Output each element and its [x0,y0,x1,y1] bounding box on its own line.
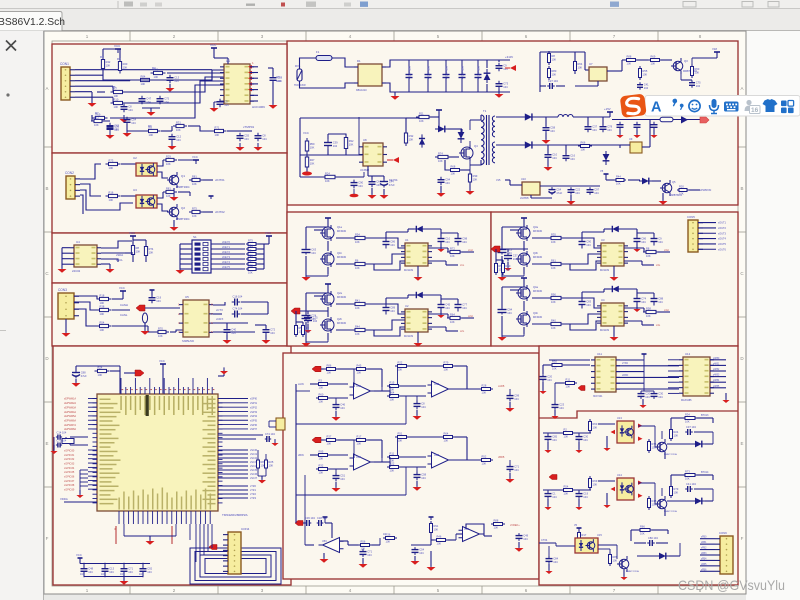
svg-text:F1: F1 [316,50,320,54]
svg-text:CANH: CANH [120,303,128,307]
resistor R3 [151,72,166,74]
ground ic 1 [417,266,419,276]
resistor divider Ra [495,261,497,275]
svg-text:R47: R47 [310,158,315,162]
ground analog [79,490,81,494]
ground opto 14 [606,493,608,504]
diode D2 [484,69,491,83]
svg-text:R90: R90 [551,293,556,297]
diode Do 14 [692,498,706,505]
svg-text:47uF: 47uF [556,191,562,195]
ground c2a B [416,481,418,486]
block frame optocoupler inputs [52,153,287,233]
dip switch S1 [192,240,211,273]
svg-text:x3H: x3H [664,248,669,252]
resistor Re 14 [648,496,650,510]
resistor Rf1 B [324,439,338,441]
svg-text:U2: U2 [405,304,409,308]
wire long feedback left [295,384,297,523]
svg-text:10K: 10K [564,492,569,496]
sogou logo S [620,94,647,118]
wire between fets 4 [523,301,525,311]
wire caps right [241,301,268,303]
svg-text:UBB: UBB [434,454,439,457]
svg-text:10K: 10K [564,435,569,439]
svg-text:C88: C88 [658,296,663,300]
resistor R66 [691,64,693,78]
svg-text:xFB0: xFB0 [701,537,707,539]
svg-text:Q2: Q2 [181,206,185,210]
power flag VCC 3 [523,218,525,221]
svg-text:10K: 10K [506,268,511,272]
wire rtop 13 [671,417,685,419]
resistor R32 pullup [145,244,147,259]
svg-text:R69: R69 [593,479,598,483]
svg-text:xSPI4: xSPI4 [250,414,257,418]
svg-text:R9: R9 [306,326,310,330]
svg-text:10K: 10K [437,542,442,546]
resistor Ro A [479,388,493,390]
svg-text:C92: C92 [147,566,152,570]
svg-text:xEPWM7A: xEPWM7A [64,424,76,427]
svg-text:470uF/450V: 470uF/450V [409,66,412,79]
svg-text:R58: R58 [646,307,651,311]
wire fet branch 4 [502,286,524,288]
svg-text:104: 104 [231,331,236,335]
svg-text:C63: C63 [311,247,316,251]
wire con5 nets [698,222,716,224]
svg-text:10K: 10K [695,71,700,75]
svg-text:R11: R11 [566,378,571,382]
pwm ic U8 UC3842 [363,143,383,166]
svg-text:R38: R38 [100,305,105,309]
svg-text:R64: R64 [578,62,583,66]
mosfet Q2a [322,293,334,305]
svg-text:MMBT3904: MMBT3904 [176,185,190,189]
ground U4 right [109,264,111,268]
svg-text:C74 104: C74 104 [265,432,275,436]
svg-text:C22: C22 [575,187,580,191]
wire to reg [565,51,585,53]
wire boot 3 [581,232,583,238]
resistor R4 [138,79,153,81]
diode D71 [435,126,449,133]
svg-text:1K: 1K [383,533,386,536]
svg-text:470uF/450V: 470uF/450V [428,66,431,79]
wire to ic lower [170,331,176,333]
svg-text:C20: C20 [645,391,650,395]
ground Q1 [173,188,175,196]
opamp D [463,527,480,542]
svg-text:10K: 10K [593,426,598,430]
resistor divider Ra [295,323,297,337]
ic U5 CAN transceiver [183,300,209,337]
svg-text:UAB: UAB [434,383,439,386]
svg-text:xBFB: xBFB [498,455,505,459]
svg-text:TMS320F2808PZA: TMS320F2808PZA [222,513,248,517]
svg-text:C99: C99 [514,393,519,397]
resistor R50 [95,370,110,372]
svg-text:104: 104 [358,184,363,188]
svg-text:C74 104: C74 104 [233,307,243,311]
svg-text:D1: D1 [357,59,361,63]
svg-text:xGPIO34: xGPIO34 [64,467,75,470]
svg-text:xFB3: xFB3 [701,553,707,555]
wire vcc stub [178,191,190,193]
ground cv2 [518,542,520,547]
svg-text:R75: R75 [248,239,253,243]
ground CON3 [65,319,67,332]
transistor Q5 [662,183,672,193]
wire loop jtag 4 [205,559,266,574]
wire sec rail2 [496,144,523,146]
svg-text:VDDA: VDDA [60,497,68,501]
wire dboot 3 [604,228,610,230]
sogou icon tshirt [763,99,778,112]
opamp B B [432,452,449,468]
svg-text:x3L: x3L [656,263,661,267]
svg-text:xKEY5: xKEY5 [222,265,230,269]
svg-text:C55: C55 [244,133,249,137]
svg-text:10K: 10K [319,386,324,390]
svg-text:R80: R80 [552,69,557,73]
wire R22 opto2 [121,195,136,197]
mosfet Q3b [518,253,530,265]
svg-text:104: 104 [559,406,564,410]
mcu pins left all [93,398,98,400]
svg-text:xTXD: xTXD [622,362,628,365]
svg-text:C49: C49 [523,533,528,537]
svg-text:104: 104 [658,395,663,399]
svg-text:VCC: VCC [210,43,217,47]
transistor Q3 [673,61,683,71]
svg-text:BT014: BT014 [701,471,709,474]
optocoupler U15 [575,538,598,553]
svg-text:xGPIO30: xGPIO30 [64,449,75,452]
wire drain rail 1 [327,218,329,227]
ground cap 1 [305,256,307,276]
svg-text:R54: R54 [100,321,105,325]
wire rail2 out [535,144,620,146]
svg-text:R44: R44 [355,325,360,329]
connector CON5 [688,220,698,252]
resistor R74 [416,116,432,118]
svg-text:C83: C83 [586,299,591,303]
svg-text:104: 104 [696,84,701,88]
wire U4 right [101,241,132,248]
svg-text:xVREF+: xVREF+ [510,523,520,527]
svg-text:R66: R66 [581,141,586,145]
tl431 U9 [630,142,642,153]
svg-text:U8: U8 [363,138,367,142]
svg-text:xSCI2: xSCI2 [250,456,258,460]
mosfet Q4 [461,147,473,159]
ground fcaps 13 [547,442,549,449]
svg-text:10K: 10K [451,172,456,176]
port input A [312,366,321,372]
resistor R10 [173,125,187,127]
svg-text:Q1b: Q1b [337,251,342,255]
svg-text:x4850: x4850 [713,358,720,360]
ground R51 R52 [257,468,259,476]
power flag vref row3 [324,517,326,520]
mcu inner pin names bottom [118,498,120,510]
svg-text:F: F [46,536,49,541]
svg-text:MMBT3904: MMBT3904 [176,217,190,221]
power flag VCCA [716,52,718,56]
ground cap 4 [501,316,503,336]
port marks opto 14 [638,481,643,485]
svg-text:R18: R18 [100,294,105,298]
svg-text:C86: C86 [390,239,395,243]
stage2 resistors Rg1 A [395,365,409,367]
ground bridge [394,92,396,95]
ground cvcc 2 [440,310,442,314]
diode Dboot 2 [412,292,426,298]
svg-text:104: 104 [644,86,649,90]
wire port [500,248,528,250]
svg-text:470uF/450V: 470uF/450V [446,66,449,79]
resistor R42 [97,309,112,311]
component Y2 resonator [276,418,285,430]
block frame divider feedback [539,411,738,418]
svg-text:104: 104 [445,306,450,310]
svg-text:C54: C54 [131,117,136,121]
diode Do 13 [692,441,706,448]
svg-text:NE4701: NE4701 [389,179,398,182]
resistor R52 [265,458,267,470]
port xRST [135,370,144,376]
mcu pins right group3 [218,449,248,451]
svg-text:VCC: VCC [119,286,125,290]
ground C72 [383,189,385,194]
svg-text:F: F [741,536,744,541]
resistor Rv3 [491,523,505,525]
wire to R10 [161,130,172,132]
svg-text:R11: R11 [419,112,424,116]
svg-text:R22: R22 [398,361,403,365]
diode Dboot 3 [608,226,622,232]
svg-text:x4H: x4H [664,308,669,312]
snubber diode D72 [458,129,465,143]
opamp C left-facing [323,538,340,553]
svg-text:xEPWM5A: xEPWM5A [64,415,76,418]
svg-text:R29: R29 [166,155,171,159]
svg-text:24C02: 24C02 [72,269,81,273]
ground phase [507,262,509,267]
wire u12 right [710,359,726,361]
svg-text:UAA: UAA [356,385,361,388]
resistor R31 pullup [132,243,134,258]
svg-text:C23: C23 [559,402,564,406]
sogou icon microphone [712,99,717,108]
svg-text:xINT02: xINT02 [215,210,225,214]
svg-text:KBU1010: KBU1010 [356,89,367,92]
mcu analog pins left [80,469,88,471]
wire hout loop 1 [366,238,405,248]
wire source gnd 1 [327,267,329,274]
mcu top pin labels [120,396,122,410]
svg-text:10K: 10K [327,371,332,375]
resistor R78 [578,145,592,147]
wire rn1 common [263,244,265,269]
svg-text:10K: 10K [643,73,648,77]
wire divider [496,259,503,261]
svg-text:x4854: x4854 [713,380,720,382]
port phase out [291,308,300,314]
svg-text:104: 104 [147,570,152,574]
power flag VCC1 [117,49,119,53]
transistor Q2 [169,207,179,217]
svg-text:x1H: x1H [468,248,473,252]
wire gate1 2 [336,303,354,305]
wire cap rail bottom [84,576,143,578]
svg-text:R66: R66 [640,525,645,529]
svg-text:R25: R25 [269,460,274,464]
bottom gutter [44,594,746,600]
svg-text:470uF/450V: 470uF/450V [478,66,481,79]
svg-text:10K: 10K [100,328,105,332]
wire do 14 [705,500,713,502]
ground cvcc 4 [636,304,638,308]
ground C71 [371,188,373,194]
svg-text:IRF640N: IRF640N [337,323,347,325]
resistor Rg1 2 [352,303,368,305]
wire lin label 3 [624,260,642,262]
ground C42 [144,323,146,330]
svg-text:C41: C41 [644,82,649,86]
svg-text:xFB1: xFB1 [701,542,707,544]
ground mcu top right [223,370,225,376]
wire qo emitter 13 [664,452,666,459]
svg-text:xFB2: xFB2 [701,548,707,550]
svg-text:xGPIO37: xGPIO37 [64,480,75,483]
svg-text:C10: C10 [445,236,450,240]
svg-text:U1: U1 [405,238,409,242]
mcu pins left group1 [88,398,97,400]
svg-text:C46: C46 [340,402,345,406]
svg-text:R7: R7 [95,111,99,115]
svg-text:R8: R8 [646,247,650,251]
svg-text:104: 104 [641,300,646,304]
wire dboot 4 [604,288,610,290]
svg-text:R11: R11 [390,452,395,456]
svg-text:MMBT2222A: MMBT2222A [626,570,639,573]
resistor R8 [91,120,105,122]
svg-text:10K: 10K [114,94,119,98]
optocoupler U13 [617,421,634,443]
svg-text:U3: U3 [601,238,605,242]
svg-text:10K: 10K [494,526,499,530]
svg-text:104: 104 [645,395,650,399]
svg-text:R61: R61 [551,259,556,263]
resistor R64 [648,59,662,61]
svg-text:104: 104 [583,438,588,442]
svg-text:R79: R79 [444,361,449,365]
svg-text:xOUT4: xOUT4 [718,238,727,241]
svg-text:U14: U14 [617,473,622,477]
resistor R26 [189,211,203,213]
left panel close button [6,41,16,51]
resistor Rs 2 [447,317,463,319]
svg-text:C94: C94 [507,307,512,311]
wire lower net [92,115,110,121]
resistor Rs 3 [643,251,659,253]
wire drain rail 3 [523,218,525,227]
svg-text:R8: R8 [136,246,140,250]
wire U4 left pins to gnd [62,247,70,249]
svg-text:BS86V1.2.Sch: BS86V1.2.Sch [0,17,65,28]
ground C2 C3 [142,107,160,109]
svg-text:10K: 10K [176,128,181,132]
ground cb2 [642,399,644,404]
svg-text:10K: 10K [357,371,362,375]
resistor R41 [97,298,112,300]
resistor Rs 1 [447,251,463,253]
tab bar [0,9,800,31]
sheet frame inner line [52,41,738,586]
bulk capacitor CB3 [445,60,447,75]
svg-text:U11: U11 [597,352,602,356]
ground C85 pad [350,194,359,198]
svg-text:C75: C75 [313,315,318,319]
power flag VCC 2 [327,284,329,287]
svg-text:R56: R56 [361,540,366,544]
ic U1 HCF4069 [224,64,250,104]
svg-text:xSPI1: xSPI1 [250,401,257,405]
svg-text:R6: R6 [248,259,252,263]
wire opto1 out [157,160,163,166]
svg-text:xTZ0: xTZ0 [250,484,256,488]
svg-text:U4: U4 [601,298,605,302]
wire con6 nets [700,538,715,540]
ground C84 [653,130,655,134]
stage2 resistors Rg1 B [395,436,409,438]
svg-text:C54: C54 [556,187,561,191]
sogou icon apps grid [781,101,787,107]
svg-text:C30: C30 [658,391,663,395]
svg-text:xOUT5: xOUT5 [718,243,727,246]
wire fb top A [321,368,324,370]
svg-text:R16: R16 [109,191,114,195]
wire loop jtag outer [190,548,281,584]
svg-text:104: 104 [570,157,575,161]
svg-text:C9: C9 [658,236,662,240]
connector CON1 [61,67,70,100]
svg-text:C71: C71 [128,566,133,570]
mcu pins right group4 [218,485,248,487]
svg-text:10K: 10K [192,182,197,186]
port b2 [578,386,585,391]
svg-text:C13: C13 [174,75,179,79]
svg-text:BT013: BT013 [701,414,709,417]
driver IC U2 IR2110 [405,309,428,332]
wire gate1 3 [532,237,550,239]
svg-text:U5C: U5C [322,540,327,543]
transistor Qo 14 [657,499,667,509]
svg-text:R10: R10 [114,98,119,102]
resistor Ri3 A [387,385,401,387]
svg-text:104: 104 [333,144,338,148]
optocoupler U14 [617,478,634,500]
svg-text:10K: 10K [419,119,424,123]
svg-text:104: 104 [340,406,345,410]
wire qo 14 [661,488,663,496]
ground R71 pad [306,167,308,172]
wire in B [310,454,318,456]
resistor divider Rb [302,323,304,337]
svg-text:R76: R76 [652,442,657,446]
